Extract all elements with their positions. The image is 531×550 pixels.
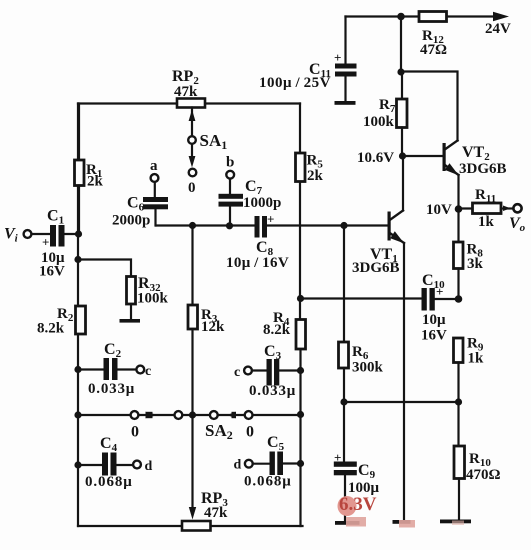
svg-text:16V: 16V: [39, 264, 65, 280]
svg-text:100μ / 25V: 100μ / 25V: [259, 75, 331, 91]
resistor R12: [419, 12, 447, 22]
capacitor C5: [245, 452, 304, 476]
24V arrowhead: [493, 12, 509, 21]
capacitor C1: [32, 225, 79, 247]
potentiometer RP3: [182, 415, 211, 531]
resistor R7: [397, 72, 408, 156]
terminal a + capacitor C6: [143, 174, 168, 225]
svg-text:24V: 24V: [485, 21, 511, 37]
svg-text:10.6V: 10.6V: [357, 150, 394, 166]
svg-text:c: c: [145, 364, 151, 379]
svg-text:47k: 47k: [204, 505, 228, 521]
wire left rail vertical: [77, 104, 79, 527]
svg-text:47k: 47k: [174, 84, 198, 100]
svg-text:0.068μ: 0.068μ: [85, 474, 133, 490]
ground C9: [335, 521, 360, 525]
svg-text:b: b: [226, 155, 234, 171]
svg-text:c: c: [234, 365, 240, 380]
svg-text:100μ: 100μ: [348, 480, 380, 496]
ground VT1 emitter: [393, 520, 411, 524]
wire top-left horizontal rail: [78, 102, 300, 104]
ground R10: [440, 520, 471, 524]
switch SA2 row: [74, 411, 304, 419]
svg-text:d: d: [234, 458, 242, 473]
resistor R5: [296, 153, 306, 182]
svg-text:a: a: [150, 158, 158, 174]
capacitor C9 electrolytic: [334, 402, 357, 521]
capacitor C11 electrolytic: [335, 17, 357, 105]
svg-text:+: +: [42, 235, 49, 250]
svg-text:100k: 100k: [137, 291, 169, 307]
svg-text:3DG6B: 3DG6B: [352, 260, 400, 276]
svg-text:300k: 300k: [352, 360, 384, 376]
node 10V + resistor R11 + terminal Vo: [455, 203, 522, 214]
resistor R10: [454, 402, 465, 520]
potentiometer RP2: [177, 99, 205, 137]
svg-text:0: 0: [131, 424, 139, 441]
node top rail / R7: [397, 13, 405, 21]
wire feedback row: [344, 401, 459, 403]
svg-text:3DG6B: 3DG6B: [459, 161, 507, 177]
svg-text:0: 0: [246, 424, 254, 441]
svg-text:1k: 1k: [478, 214, 495, 230]
svg-text:10μ: 10μ: [422, 312, 446, 328]
svg-text:16V: 16V: [421, 328, 447, 344]
svg-text:10μ / 16V: 10μ / 16V: [226, 255, 289, 271]
resistor R2: [76, 306, 86, 334]
resistor R8: [454, 209, 464, 299]
wire middle row to VT1 base: [156, 224, 388, 226]
wire C10 row: [301, 297, 422, 299]
capacitor C4: [74, 453, 141, 476]
svg-text:8.2k: 8.2k: [263, 322, 291, 338]
transistor VT2: [443, 141, 459, 210]
node 10.6V: [399, 152, 406, 159]
svg-text:+: +: [334, 450, 341, 465]
svg-text:470Ω: 470Ω: [466, 467, 501, 483]
svg-text:d: d: [145, 459, 153, 474]
svg-text:0.033μ: 0.033μ: [249, 383, 296, 399]
wire across to VT2 collector: [401, 72, 458, 141]
svg-text:8.2k: 8.2k: [37, 321, 65, 337]
resistor R3 column: [188, 222, 198, 415]
capacitor C2: [74, 358, 144, 380]
capacitor C8 electrolytic: [255, 216, 268, 238]
svg-text:6.3V: 6.3V: [339, 494, 377, 515]
node tone network feedback: [297, 295, 304, 302]
resistor R6 column: [339, 222, 349, 402]
wire right column of tone network: [299, 104, 302, 527]
watermark pink blob: [338, 496, 357, 516]
svg-text:10V: 10V: [426, 202, 452, 218]
terminal b + capacitor C7: [219, 171, 244, 230]
wire top supply rail: [346, 15, 495, 17]
node R12/R7/VT2-collector junction: [397, 68, 404, 75]
transistor VT1: [388, 156, 405, 521]
svg-text:+: +: [267, 212, 274, 227]
svg-text:1000p: 1000p: [243, 195, 281, 211]
wire from top node down to R7 node: [400, 17, 402, 73]
svg-text:0.068μ: 0.068μ: [244, 474, 292, 490]
capacitor C3: [244, 359, 304, 386]
capacitor C10 electrolytic: [422, 288, 463, 311]
svg-text:47Ω: 47Ω: [420, 42, 447, 58]
svg-text:2k: 2k: [87, 174, 104, 190]
wire bottom rail: [78, 525, 303, 527]
terminal Vi circle: [24, 230, 32, 238]
svg-text:3k: 3k: [467, 256, 484, 272]
svg-text:12k: 12k: [201, 319, 225, 335]
resistor R4: [296, 320, 306, 350]
svg-text:0.033μ: 0.033μ: [88, 381, 135, 397]
resistor R32 branch: [74, 256, 135, 319]
switch SA1: [188, 136, 196, 176]
wire base VT2: [403, 155, 443, 157]
svg-text:1k: 1k: [468, 351, 485, 367]
resistor R9: [454, 338, 464, 402]
svg-text:2k: 2k: [307, 168, 324, 184]
svg-text:+: +: [334, 50, 341, 65]
svg-text:100k: 100k: [363, 114, 395, 130]
node C1/rail junction: [75, 230, 82, 237]
ground under R32: [120, 319, 141, 323]
resistor R1: [75, 104, 85, 235]
svg-text:0: 0: [188, 180, 196, 196]
svg-text:2000p: 2000p: [112, 213, 150, 229]
